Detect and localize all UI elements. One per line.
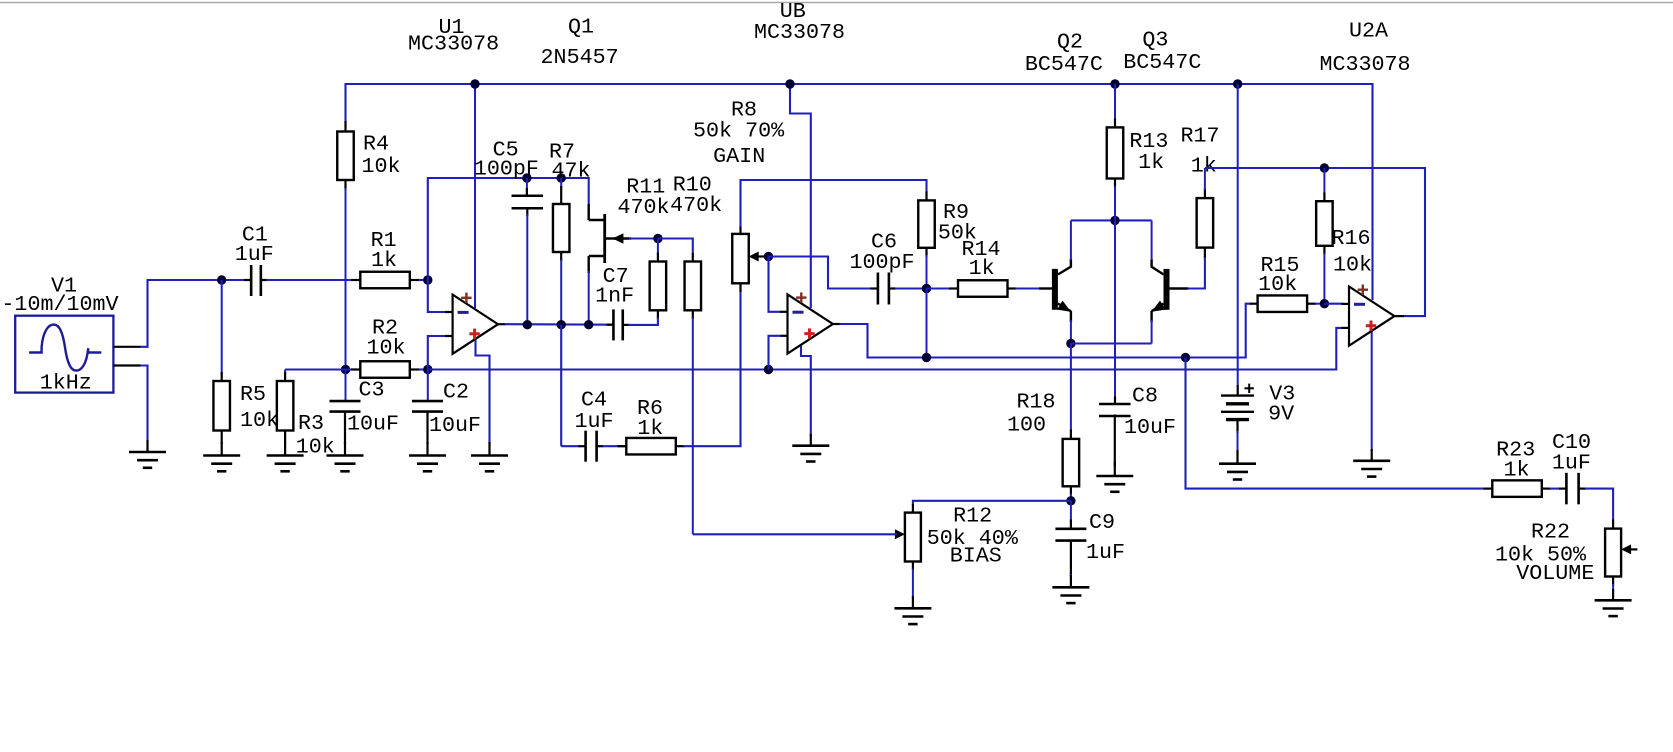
svg-text:1k: 1k [371, 248, 397, 273]
wire U1 V+ pin [474, 84, 476, 308]
ground R3 [284, 442, 286, 456]
node R16 top [1320, 163, 1329, 172]
svg-text:VOLUME: VOLUME [1516, 561, 1594, 586]
svg-text:R3: R3 [298, 411, 324, 436]
svg-text:47k: 47k [551, 158, 590, 183]
node UB V+ on bus [785, 79, 794, 88]
potentiometer R8 [739, 226, 741, 235]
ground R22 [1612, 589, 1614, 600]
node UB non-inverting [764, 365, 773, 374]
svg-text:1uF: 1uF [1552, 451, 1591, 476]
svg-text:BC547C: BC547C [1123, 50, 1201, 75]
resistor R6 [603, 445, 627, 447]
wire R18 bottom to R12 [913, 501, 1071, 505]
capacitor C8 [1114, 220, 1116, 398]
capacitor C7 [607, 324, 614, 326]
node R9 C6 R14 [922, 284, 931, 293]
svg-text:100pF: 100pF [474, 156, 539, 181]
resistor R4 [344, 121, 346, 132]
ground U1 [488, 442, 490, 456]
capacitor C1 [244, 279, 251, 281]
node U2A inverting [1320, 299, 1329, 308]
node U1 non-inverting [423, 365, 432, 374]
node V3 top on bus [1233, 79, 1242, 88]
capacitor C9 [1070, 501, 1072, 521]
svg-text:MC33078: MC33078 [1319, 52, 1410, 77]
svg-text:R4: R4 [363, 132, 389, 157]
resistor R16 [1323, 168, 1325, 194]
transistor Q1 JFET [588, 204, 590, 220]
resistor R2 [346, 369, 353, 371]
resistor R13 [1114, 84, 1116, 120]
ground C8 [1114, 462, 1116, 476]
wire R7 bottom to C4 [560, 325, 562, 447]
wire R8 wiper to UB inverting [769, 257, 782, 312]
svg-text:10k: 10k [240, 408, 279, 433]
voltage source V1 [15, 316, 113, 393]
resistor R5 [221, 280, 223, 374]
svg-text:10k: 10k [1333, 253, 1372, 278]
ground R12 [912, 596, 914, 608]
capacitor C6 [871, 287, 879, 289]
node R18 C9 R12 [1066, 496, 1075, 505]
svg-text:100pF: 100pF [849, 250, 914, 275]
wire U2A output [1394, 315, 1404, 317]
svg-text:1uF: 1uF [1086, 540, 1125, 565]
node U1 V+ on bus [470, 79, 479, 88]
svg-text:50k 70%: 50k 70% [693, 118, 785, 143]
svg-text:10k: 10k [366, 336, 405, 361]
node collectors R13 [1110, 216, 1119, 225]
capacitor C5 [522, 173, 531, 182]
svg-text:1k: 1k [637, 416, 663, 441]
wire U1 feedback node [428, 178, 589, 280]
svg-text:BIAS: BIAS [950, 544, 1002, 569]
svg-text:R22: R22 [1531, 520, 1570, 545]
svg-text:Q1: Q1 [568, 15, 594, 40]
resistor R7 [557, 173, 566, 182]
svg-text:9V: 9V [1268, 401, 1294, 426]
svg-text:10k: 10k [1258, 272, 1297, 297]
svg-text:MC33078: MC33078 [408, 32, 499, 57]
resistor R1 [351, 279, 360, 281]
node line A to output [1181, 353, 1190, 362]
battery V3 [1237, 385, 1239, 396]
svg-text:1k: 1k [1191, 154, 1217, 179]
top window border line [0, 2, 1673, 4]
svg-text:Q3: Q3 [1142, 28, 1168, 53]
svg-text:R17: R17 [1180, 124, 1219, 149]
wire bias rail [428, 328, 1343, 370]
wire UB V+ pin [790, 84, 811, 308]
resistor R3 [285, 368, 345, 370]
svg-text:1kHz: 1kHz [40, 371, 92, 396]
svg-text:1k: 1k [1138, 150, 1164, 175]
node R8 wiper [764, 252, 773, 261]
node input junction [217, 275, 226, 284]
potentiometer R12 [912, 504, 914, 513]
svg-text:10k: 10k [362, 154, 401, 179]
wire UB output [833, 323, 841, 325]
node bias divider [341, 365, 350, 374]
capacitor C10 [1550, 488, 1560, 490]
svg-text:C9: C9 [1089, 510, 1115, 535]
ground V3 [1236, 450, 1238, 464]
wire R1 to U1 inverting input [419, 279, 428, 281]
node R13 top on bus [1110, 79, 1119, 88]
resistor R11 [657, 239, 659, 255]
potentiometer R22 [1612, 520, 1614, 529]
wire U1 V- pin to ground [476, 338, 490, 444]
wire Q1 gate node [629, 237, 658, 239]
wire U1 output [498, 323, 506, 325]
op-amp U2A [1342, 303, 1351, 305]
wire R6 to R8 bottom [684, 291, 741, 446]
wire output to R23 [1186, 358, 1485, 489]
svg-text:1uF: 1uF [235, 242, 274, 267]
svg-text:GAIN: GAIN [713, 144, 765, 169]
resistor R23 [1484, 488, 1493, 490]
battery plus sign [1245, 387, 1254, 389]
transistor Q2 [1039, 287, 1052, 289]
wire V1 plus to node [140, 280, 251, 347]
ground C9 [1070, 575, 1072, 587]
resistor R14 [927, 287, 951, 289]
resistor R10 [692, 253, 694, 262]
svg-text:1k: 1k [1503, 458, 1529, 483]
resistor R15 [1250, 303, 1258, 305]
svg-text:10uF: 10uF [347, 412, 399, 437]
wire C10 to R22 [1585, 489, 1613, 521]
capacitor C3 [345, 370, 347, 402]
wire U2A V- pin to ground [1371, 332, 1373, 452]
svg-text:2N5457: 2N5457 [541, 45, 619, 70]
capacitor C2 [427, 370, 429, 402]
svg-text:1nF: 1nF [595, 284, 634, 309]
resistor R9 [925, 192, 927, 201]
wire Q3 base to R17 [1188, 257, 1205, 289]
svg-text:100: 100 [1007, 413, 1046, 438]
svg-text:R12: R12 [953, 504, 992, 529]
svg-text:MC33078: MC33078 [754, 20, 845, 45]
svg-text:R16: R16 [1331, 226, 1370, 251]
svg-text:10uF: 10uF [429, 413, 481, 438]
wire V3 to bus [1237, 84, 1239, 387]
svg-text:R5: R5 [240, 382, 266, 407]
resistor R18 [1070, 344, 1072, 432]
ground C2 [426, 442, 428, 456]
transistor Q3 [1170, 287, 1189, 289]
ground U2A [1371, 449, 1373, 461]
wire R10 to R12 wiper [693, 533, 897, 535]
svg-text:C3: C3 [359, 378, 385, 403]
wire collectors [1071, 219, 1152, 221]
svg-text:10uF: 10uF [1124, 415, 1176, 440]
svg-text:470k: 470k [617, 195, 669, 220]
capacitor C4 [561, 445, 580, 447]
svg-text:C2: C2 [443, 380, 469, 405]
wire R8 wiper to C6 [769, 257, 873, 289]
resistor R17 [1204, 248, 1206, 258]
svg-text:-10m/10mV: -10m/10mV [1, 292, 118, 317]
ground UB [810, 434, 812, 446]
svg-text:R18: R18 [1016, 390, 1055, 415]
op-amp UB [780, 311, 789, 313]
ground C3 [344, 442, 346, 456]
svg-text:470k: 470k [670, 193, 722, 218]
ground R5 [221, 442, 223, 456]
node U1 output [523, 320, 532, 329]
svg-text:C8: C8 [1132, 383, 1158, 408]
svg-text:U2A: U2A [1349, 19, 1388, 44]
svg-text:1k: 1k [969, 256, 995, 281]
ground V1 [146, 440, 148, 452]
wire +V top bus [346, 84, 1373, 300]
svg-text:Q2: Q2 [1057, 30, 1083, 55]
svg-text:1uF: 1uF [574, 409, 613, 434]
wire V1 minus to ground [140, 366, 148, 445]
wire UB V- pin to ground [801, 344, 811, 436]
svg-text:BC547C: BC547C [1025, 52, 1103, 77]
op-amp U1 [445, 311, 454, 313]
wire U2A feedback [1205, 168, 1425, 316]
node emitters [1066, 339, 1075, 348]
wire C1 to R1 [266, 279, 353, 281]
